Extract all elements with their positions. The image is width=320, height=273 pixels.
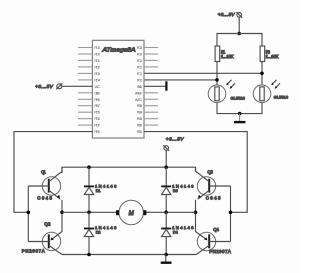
svg-text:PB4: PB4 <box>137 111 143 115</box>
node D2 ground junction <box>87 253 91 257</box>
svg-text:AVCC: AVCC <box>135 98 143 102</box>
pin stub PC6 (left) <box>78 47 92 49</box>
svg-text:PD6: PD6 <box>94 117 100 121</box>
diode D4 1N4148 <box>161 212 194 254</box>
power symbol (top right) <box>236 12 242 18</box>
svg-text:PD2: PD2 <box>94 65 100 69</box>
svg-text:Q4: Q4 <box>213 227 219 232</box>
svg-text:+3...5V: +3...5V <box>218 12 236 17</box>
wire Q4 base lead <box>209 241 230 243</box>
svg-text:M: M <box>129 210 135 217</box>
svg-text:PB2: PB2 <box>137 124 143 128</box>
node right base junction <box>229 211 233 215</box>
svg-text:VCC: VCC <box>94 85 100 89</box>
node sensor ground junction <box>238 112 242 116</box>
pin stub PC5 (right) <box>144 47 158 49</box>
wire sensor top rail <box>217 34 262 47</box>
svg-text:GND: GND <box>137 85 143 89</box>
pin stub PC3 (right) <box>144 59 158 61</box>
wire to sensor ground <box>239 114 241 122</box>
pin stub PC4 (right) <box>144 53 158 55</box>
wire LDR bottoms to ground rail <box>217 103 262 114</box>
svg-text:PC4: PC4 <box>137 52 143 56</box>
node left base junction <box>27 211 31 215</box>
wire left base tie <box>27 186 29 242</box>
svg-text:PD4: PD4 <box>94 78 100 82</box>
svg-text:PD7: PD7 <box>94 124 100 128</box>
wire Q1 base lead <box>28 185 49 187</box>
pin stub PD6 (left) <box>78 118 92 120</box>
svg-text:GND: GND <box>94 91 100 95</box>
node PC1-R3 junction <box>260 72 264 76</box>
svg-text:PC2: PC2 <box>137 65 143 69</box>
node right emitter junction <box>194 211 198 215</box>
wire motor left <box>62 211 116 213</box>
ground (bridge) <box>161 262 172 264</box>
transistor Q4 PN2907A <box>196 227 231 255</box>
ground (sensor divider) <box>234 121 245 123</box>
wire bottom ground rail <box>62 254 196 256</box>
wire Q2 base lead <box>28 241 49 243</box>
svg-text:D3: D3 <box>173 188 179 193</box>
wire motor right <box>146 211 195 213</box>
svg-text:PB7: PB7 <box>94 104 100 108</box>
motor M <box>116 200 146 224</box>
svg-text:Q1: Q1 <box>41 169 46 174</box>
svg-text:PD3: PD3 <box>94 72 100 76</box>
pin stub AVCC (right) <box>144 98 158 100</box>
wire Q3 base lead <box>209 185 230 187</box>
node V+ power junction <box>164 165 168 169</box>
wire Q1 collector to rail <box>61 167 63 172</box>
wire bridge V+ drop <box>165 150 167 167</box>
wire R1 bottom lead <box>216 62 218 86</box>
pin stub PD1 (left) <box>78 59 92 61</box>
wire Q4 emitter up <box>195 212 197 232</box>
svg-text:AREF: AREF <box>135 91 143 95</box>
pin stub PD2 (left) <box>78 66 92 68</box>
pin stub PD3 (left) <box>78 72 92 74</box>
node D4 ground junction <box>164 253 168 257</box>
svg-text:PN2907A: PN2907A <box>209 249 231 254</box>
pin labels right column <box>135 46 143 134</box>
svg-text:PC3: PC3 <box>137 59 143 63</box>
svg-text:+3...5V: +3...5V <box>35 84 53 89</box>
wire Q3 collector to rail <box>195 167 197 172</box>
node PC0-R1 junction <box>215 78 219 82</box>
svg-text:D4: D4 <box>173 230 179 235</box>
svg-text:C945: C945 <box>206 196 221 201</box>
svg-text:PC1: PC1 <box>137 72 143 76</box>
transistor Q1 C945 <box>37 169 62 200</box>
svg-text:D2: D2 <box>96 230 102 235</box>
diode D2 1N4148 <box>84 212 117 254</box>
transistor Q2 PN2907A <box>22 222 62 255</box>
svg-text:PB5: PB5 <box>137 104 143 108</box>
svg-text:PC6: PC6 <box>94 46 100 50</box>
wire power to sensor rail <box>238 17 240 33</box>
ground (IC GND bar) <box>165 81 167 90</box>
svg-text:PD1: PD1 <box>94 59 100 63</box>
svg-text:PD5: PD5 <box>94 111 100 115</box>
wire R3 bottom lead <box>261 62 263 86</box>
node motor-left D1 junction <box>87 211 91 215</box>
resistor R1 <box>215 46 234 62</box>
pin labels left column <box>94 46 100 134</box>
svg-text:PD0: PD0 <box>94 52 100 56</box>
wire ground stub <box>165 255 167 262</box>
pin stub PB7 (left) <box>78 105 92 107</box>
pin stub PC2 (right) <box>144 66 158 68</box>
svg-text:PC0: PC0 <box>137 78 143 82</box>
node left emitter junction <box>60 211 64 215</box>
diode D1 1N4148 <box>84 167 117 212</box>
wire bridge V+ rail <box>62 167 196 173</box>
pin stub PB2 (right) <box>144 124 158 126</box>
pin stub PD7 (left) <box>78 124 92 126</box>
wire Q3 emitter down <box>195 200 197 213</box>
node V+ D1 junction <box>87 165 91 169</box>
svg-text:PB6: PB6 <box>94 98 100 102</box>
wire VCC pin <box>62 85 93 87</box>
wire Q2 emitter up <box>61 212 63 232</box>
pin stub PD4 (left) <box>78 79 92 81</box>
photoresistor LDR2 GL5516 <box>253 80 288 103</box>
op IC body ATmega8A <box>92 40 144 138</box>
wire GND pin right <box>144 85 165 87</box>
pin stub GND (left) <box>78 92 92 94</box>
pin stub PD5 (left) <box>78 111 92 113</box>
svg-text:PN2907A: PN2907A <box>22 249 45 254</box>
transistor Q3 C945 <box>196 169 221 200</box>
svg-text:1...10K: 1...10K <box>221 54 234 59</box>
svg-text:Q2: Q2 <box>44 222 51 227</box>
svg-text:PB0: PB0 <box>94 130 100 134</box>
svg-text:1...10K: 1...10K <box>266 54 279 59</box>
svg-text:GL5516: GL5516 <box>231 97 245 101</box>
wire Q1 emitter down <box>61 200 63 213</box>
wire PB1 to right bridge input <box>144 132 247 213</box>
wire PC1 to R3/LDR2 divider <box>144 72 262 74</box>
pin stub AREF (right) <box>144 92 158 94</box>
pin stub PB4 (right) <box>144 111 158 113</box>
wire right base tie <box>230 186 232 242</box>
svg-text:+3...5V: +3...5V <box>166 137 184 142</box>
pin stubs right (unconnected) <box>144 48 158 126</box>
svg-text:PB3: PB3 <box>137 117 143 121</box>
resistor R3 <box>260 46 279 62</box>
node sensor supply rail junction <box>237 32 241 36</box>
pin stub PB6 (left) <box>78 98 92 100</box>
pin stubs left (unconnected) <box>78 48 92 126</box>
photoresistor LDR1 GL5516 <box>208 80 245 103</box>
power symbol (VCC left) <box>56 83 62 89</box>
sensor supply label +3...5V (top right) <box>218 12 236 17</box>
svg-text:D1: D1 <box>96 188 102 193</box>
wire PC0 to R1/LDR1 divider <box>144 79 217 81</box>
svg-text:ATmega8A: ATmega8A <box>101 47 135 53</box>
svg-text:C945: C945 <box>37 196 52 201</box>
svg-text:GL5516: GL5516 <box>274 96 288 100</box>
svg-text:Q3: Q3 <box>207 169 213 174</box>
diode D3 1N4148 <box>161 167 194 212</box>
svg-text:PC5: PC5 <box>137 46 143 50</box>
pin stub PD0 (left) <box>78 53 92 55</box>
wire PB0 to left bridge input <box>14 132 92 213</box>
pin stub PB3 (right) <box>144 118 158 120</box>
node motor-right D3 junction <box>164 211 168 215</box>
svg-text:PB1: PB1 <box>137 130 143 134</box>
pin stub PB5 (right) <box>144 105 158 107</box>
power symbol (bridge) <box>163 145 169 151</box>
